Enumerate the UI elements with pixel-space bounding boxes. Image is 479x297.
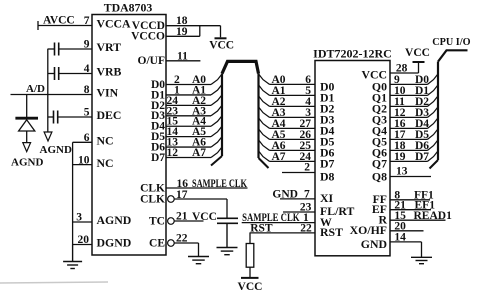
svg-text:17: 17 [176,189,188,201]
ground (C4) [217,223,238,254]
svg-text:21: 21 [176,211,188,223]
power AVCC net [38,15,92,31]
wire U2 D8 pin 2 stub [282,162,315,174]
svg-text:D8: D8 [320,169,335,183]
diode D1 [15,95,38,143]
svg-text:VRB: VRB [97,65,122,79]
node READ1 (U2 R pin 15) [390,210,452,222]
capacitor C4 [217,218,238,223]
svg-text:O/UF: O/UF [138,55,165,67]
wire U1 D1 (pin 1) to bus, net A1 [166,84,222,96]
svg-text:VCCA: VCCA [97,17,132,31]
svg-text:14: 14 [394,232,406,244]
wire bus A3 to U2 D3 (pin 3) [259,107,316,119]
wire U2 Q1 (pin 10) to CPU bus, net D1 [390,85,438,97]
wire U1 D5 (pin 14) to bus, net A5 [166,126,222,138]
node SAMPLE CLK (U2 W pin 1) [242,212,315,224]
svg-text:A7: A7 [272,151,286,163]
svg-text:VCC: VCC [209,40,234,52]
node TC pin 21 VCC [168,211,217,225]
svg-text:NC: NC [97,134,114,148]
ground (U2 GND) [411,257,432,263]
node FF1 (U2 FF pin 8) [390,189,434,201]
svg-text:19: 19 [394,151,406,163]
wire O/UF pin 11 [166,50,200,62]
wire U2 FL/RT pin 23 stub [283,202,315,214]
wire U1 D6 (pin 13) to bus, net A6 [166,137,222,149]
svg-text:19: 19 [176,26,188,38]
svg-text:DEC: DEC [97,108,122,122]
svg-text:VCC: VCC [238,281,263,293]
U1 pin numbers 18 19 [176,15,188,38]
bus pipe (A0-A7) between U1 and U2 [211,61,269,168]
svg-text:AGND: AGND [40,144,72,156]
svg-text:D7: D7 [415,151,429,163]
wire U2 Q7 (pin 19) to CPU bus, net D7 [390,151,438,163]
svg-text:VCC: VCC [405,47,430,59]
wire U1 D0 (pin 2) to bus, net A0 [166,74,222,86]
bus CPU I/O [430,36,471,169]
wire U2 XO/HF pin 20 stub [390,220,424,232]
svg-text:SAMPLE CLK: SAMPLE CLK [192,178,247,190]
U1 left pin numbers [76,15,90,246]
wire NC-DGND rail [73,142,92,244]
svg-text:VIN: VIN [97,86,119,100]
svg-text:28: 28 [396,63,408,75]
wire U1 D4 (pin 15) to bus, net A4 [166,116,222,128]
svg-text:RST: RST [320,225,343,239]
svg-text:13: 13 [396,166,408,178]
svg-text:RST: RST [250,223,273,235]
svg-text:TC: TC [149,215,165,227]
svg-text:IDT7202-12RC: IDT7202-12RC [313,47,392,61]
svg-text:A/D: A/D [26,83,45,95]
wire bus A5 to U2 D5 (pin 26) [259,129,316,141]
wire U1 D2 (pin 24) to bus, net A2 [166,95,222,107]
wire (faint scan mark) [0,282,108,283]
svg-text:11: 11 [177,50,188,62]
svg-text:GND: GND [272,188,298,200]
IC U1 TDA8703 ADC body [92,1,166,256]
capacitor C3 (DEC) [48,111,93,124]
svg-text:DGND: DGND [97,236,132,250]
power VCC (R1) [238,278,263,293]
node SAMPLE CLK (U1 pin 16) [166,178,248,190]
wire U2 Q3 (pin 12) to CPU bus, net D3 [390,107,438,119]
svg-text:AGND: AGND [97,213,132,227]
svg-text:AGND: AGND [11,157,43,169]
wire U2 Q5 (pin 17) to CPU bus, net D5 [390,129,438,141]
capacitor C2 (VRB) [48,67,93,80]
node RST (U2 pin 22) [250,223,316,235]
wire CLKbar pin 17 to cap [168,189,227,218]
U1 left pin names [97,17,132,250]
U2 right pin names [350,68,388,252]
node A/D input [11,83,93,95]
capacitor C1 (VRT) [48,43,93,56]
ground AGND arrow (rail) [40,132,72,156]
power VCC (U2 pin 28) [390,47,430,75]
svg-text:CPU I/O: CPU I/O [432,36,471,48]
svg-text:READ1: READ1 [414,210,453,222]
svg-text:22: 22 [176,233,188,245]
svg-text:D7: D7 [320,156,335,170]
ground (TDA DGND) [63,245,82,269]
svg-text:Q7: Q7 [372,156,387,170]
U1 right pin names [131,20,165,249]
wire U2 Q8 pin 13 stub [390,166,431,178]
svg-text:Q8: Q8 [372,169,387,183]
svg-text:CE: CE [149,237,165,249]
wire U2 Q0 (pin 9) to CPU bus, net D0 [390,74,438,86]
node GND XI pin 7 [272,188,315,200]
svg-text:7: 7 [304,188,310,200]
U2 left pin names [320,79,354,239]
wire U2 Q4 (pin 16) to CPU bus, net D4 [390,118,438,130]
wire bus A1 to U2 D1 (pin 5) [259,85,316,97]
IC U2 IDT7202-12RC FIFO body [313,47,392,256]
wire bus A4 to U2 D4 (pin 27) [259,118,316,130]
wire U2 GND pin 14 [390,232,422,258]
wire bus A6 to U2 D6 (pin 25) [259,140,316,152]
node EF1 (U2 EF pin 21) [390,199,435,211]
svg-text:AVCC: AVCC [43,15,75,27]
svg-text:XO/HF: XO/HF [350,223,387,237]
wire CE pin 22 to ground [168,233,199,257]
power VCC (VCCD/VCCO) [166,26,234,52]
wire bus A0 to U2 D0 (pin 6) [259,74,316,86]
svg-text:CLK: CLK [140,193,165,205]
svg-text:VCC: VCC [192,211,217,223]
svg-text:D7: D7 [151,152,165,164]
resistor R1 pull to VCC [246,233,254,278]
svg-text:A7: A7 [192,147,206,159]
ground AGND arrow (diode) [11,143,43,169]
svg-text:XI: XI [320,191,334,205]
ground (CE) [188,257,209,264]
wire bus A2 to U2 D2 (pin 4) [259,96,316,108]
svg-text:NC: NC [97,156,114,170]
wire U2 Q6 (pin 18) to CPU bus, net D6 [390,140,438,152]
wire U2 Q2 (pin 11) to CPU bus, net D2 [390,96,438,108]
wire AGND rail [47,49,49,132]
svg-text:VRT: VRT [97,40,122,54]
svg-text:GND: GND [361,237,387,251]
wire U1 D3 (pin 23) to bus, net A3 [166,105,222,117]
svg-text:2: 2 [304,162,310,174]
wire U1 D7 (pin 12) to bus, net A7 [166,147,222,159]
svg-text:TDA8703: TDA8703 [104,1,153,15]
svg-text:22: 22 [300,223,312,235]
wire bus A7 to U2 D7 (pin 24) [259,151,316,163]
svg-text:12: 12 [167,147,179,159]
svg-text:VCCO: VCCO [131,31,165,43]
